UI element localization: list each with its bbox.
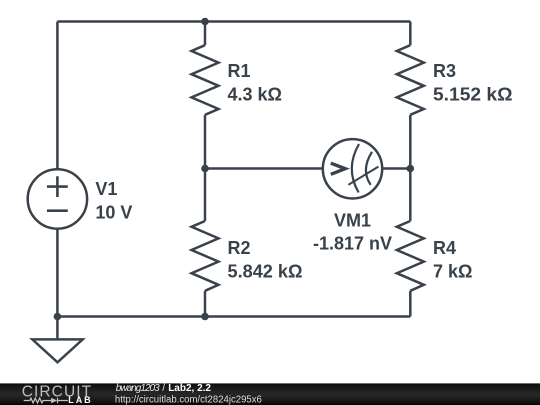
wire R3 top lead [409, 22, 412, 46]
V1 plus sign [47, 176, 68, 197]
svg-text:5.152 kΩ: 5.152 kΩ [433, 84, 513, 104]
svg-text:LAB: LAB [68, 395, 92, 405]
wire R3 bottom lead [409, 115, 412, 169]
node bottom mid [201, 313, 209, 321]
svg-text:7 kΩ: 7 kΩ [433, 262, 473, 282]
wire voltmeter to mid-right node [382, 167, 410, 170]
wire R4 bottom lead [409, 291, 412, 317]
svg-text:bwang1203: bwang1203 [116, 383, 160, 394]
svg-text:VM1: VM1 [334, 210, 371, 230]
svg-text:R1: R1 [228, 61, 251, 81]
svg-text:R2: R2 [228, 238, 251, 258]
resistor R3 [397, 45, 424, 115]
wire R4 top lead [409, 169, 412, 222]
footer logo resistor squiggle [24, 398, 51, 403]
wire R2 bottom lead [204, 291, 207, 317]
VM1 meter arc right [366, 152, 372, 185]
wire R2 top lead [204, 169, 207, 222]
resistor R4 [397, 221, 424, 291]
svg-text:5.842 kΩ: 5.842 kΩ [228, 262, 303, 282]
VM1 chevron [331, 163, 345, 174]
wire R1 top lead [204, 22, 207, 46]
node top mid [201, 18, 209, 26]
svg-text:4.3 kΩ: 4.3 kΩ [228, 84, 283, 104]
svg-text:Lab2, 2.2: Lab2, 2.2 [168, 383, 211, 394]
svg-text:V1: V1 [95, 179, 117, 199]
footer logo diode [51, 398, 57, 403]
svg-text:R4: R4 [433, 238, 456, 258]
ground [32, 339, 82, 362]
VM1 needle [348, 167, 378, 185]
wire left vertical lower [56, 229, 59, 340]
resistor R1 [192, 45, 219, 115]
footer bar [0, 383, 540, 405]
node mid left [201, 165, 209, 173]
svg-text:-1.817 nV: -1.817 nV [313, 234, 392, 254]
voltmeter VM1 circle [323, 139, 382, 198]
wire R1 bottom lead [204, 115, 207, 169]
wire mid-left to voltmeter [205, 167, 323, 170]
wire bottom horizontal [57, 315, 410, 318]
resistor R2 [192, 221, 219, 291]
svg-text:10 V: 10 V [95, 202, 132, 222]
voltage source V1 circle [28, 169, 87, 228]
svg-text:/: / [162, 383, 165, 394]
node mid right [407, 165, 415, 173]
svg-text:R3: R3 [433, 61, 456, 81]
svg-text:http://circuitlab.com/ct2824jc: http://circuitlab.com/ct2824jc295x6 [115, 395, 262, 405]
V1 minus sign [47, 209, 68, 212]
VM1 meter arc left [352, 144, 359, 193]
wire top horizontal [57, 20, 410, 23]
wire left vertical upper [56, 22, 59, 170]
node bottom left [54, 313, 62, 321]
